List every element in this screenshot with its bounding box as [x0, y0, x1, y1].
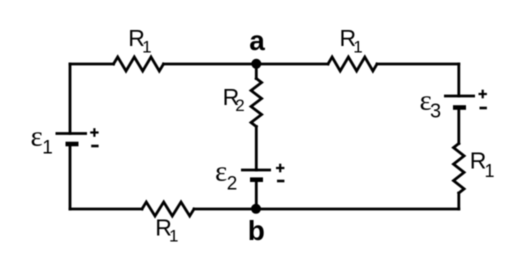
node b junction dot [251, 204, 261, 214]
battery E1 positive plate (long) [56, 132, 88, 135]
wire from R1 top-left to node a [164, 63, 257, 66]
svg-text:ε: ε [215, 155, 227, 187]
svg-text:1: 1 [42, 138, 53, 159]
wire left side upper (top-left corner down to battery E1) [69, 64, 72, 134]
battery E2 negative plate (short thick) [250, 177, 263, 182]
resistor R1 right vertical zigzag [454, 144, 465, 194]
resistor R1 top-right zigzag [328, 57, 377, 71]
node a junction dot [251, 59, 261, 69]
svg-text:2: 2 [227, 174, 238, 195]
label R1 bottom [155, 214, 178, 245]
label emf E2 [215, 155, 237, 194]
label R2 middle branch [223, 84, 245, 115]
battery E2 plus sign [276, 164, 284, 173]
label R1 right branch [470, 147, 495, 181]
wire top-left horizontal segment [70, 63, 114, 66]
label emf E1 [31, 120, 53, 158]
battery E1 negative plate (short thick) [66, 142, 79, 147]
wire from battery E2 down to node b [255, 180, 258, 209]
label R1 top-right [340, 25, 363, 57]
svg-text:b: b [248, 215, 265, 246]
svg-text:2: 2 [235, 96, 244, 115]
battery E3 plus sign [479, 90, 487, 99]
svg-text:a: a [249, 25, 265, 56]
resistor R1 top-left zigzag [114, 57, 164, 71]
resistor R1 bottom zigzag [142, 202, 194, 216]
svg-text:ε: ε [31, 120, 43, 152]
svg-text:1: 1 [485, 161, 495, 181]
resistor R2 vertical zigzag [251, 79, 262, 127]
battery E2 minus sign [277, 180, 284, 183]
svg-text:1: 1 [169, 227, 178, 246]
label R1 top-left [128, 25, 151, 57]
wire right side upper (top-right corner down to battery E3) [457, 64, 460, 96]
label emf E3 [420, 85, 442, 123]
battery E3 negative plate (short thick) [453, 105, 466, 110]
svg-text:1: 1 [353, 37, 362, 56]
wire from battery E3 down to resistor R1 right [457, 108, 460, 144]
battery E3 minus sign [480, 107, 487, 110]
wire from node a to R1 top-right [256, 63, 328, 66]
wire left side lower (battery E1 down to bottom-left corner) [69, 144, 72, 209]
battery E1 minus sign [91, 145, 98, 148]
wire bottom-left horizontal segment [70, 208, 142, 211]
wire from R1 right to bottom-right corner [457, 193, 460, 209]
wire from R1 top-right to top-right corner [377, 63, 459, 66]
wire from R1 bottom to node b and on to bottom-right corner [194, 208, 459, 211]
battery E2 positive plate (long) [241, 169, 271, 172]
svg-text:1: 1 [142, 37, 151, 56]
wire from node a down to resistor R2 [255, 64, 258, 79]
svg-text:3: 3 [430, 101, 441, 123]
wire from R2 down to battery E2 [255, 127, 258, 171]
battery E3 positive plate (long) [444, 95, 475, 98]
battery E1 plus sign [90, 128, 98, 137]
